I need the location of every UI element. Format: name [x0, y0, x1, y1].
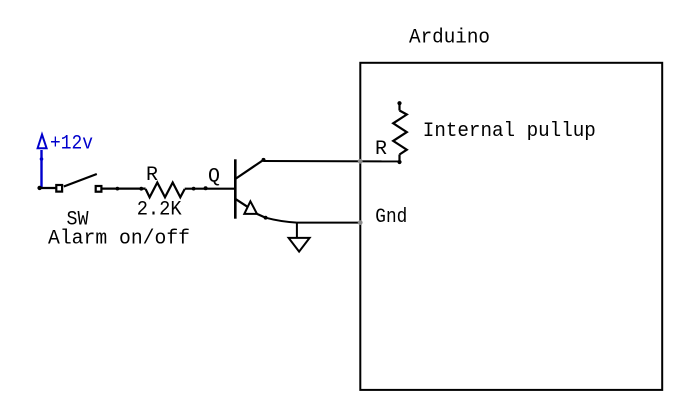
junction dot at collector corner [262, 158, 266, 162]
svg-text:R: R [146, 164, 158, 187]
svg-text:Gnd: Gnd [375, 206, 407, 229]
junction dot (gray) at box edge, pullup net [358, 159, 363, 164]
junction dot emitter [264, 216, 268, 220]
wire emitter to ground node [266, 218, 297, 223]
svg-text:+12v: +12v [50, 133, 93, 156]
pin dot top of pullup [397, 101, 401, 105]
junction dot [139, 187, 143, 191]
wire from switch to resistor R [102, 188, 145, 190]
resistor R (2.2K) [146, 183, 185, 198]
pin dot bottom of pullup [397, 160, 401, 164]
junction dot [204, 186, 208, 190]
svg-text:2.2K: 2.2K [137, 199, 182, 222]
power +12V symbol (blue arrow) [38, 135, 47, 189]
junction dot [192, 187, 196, 191]
block Arduino [360, 63, 662, 390]
wire ground node to Arduino Gnd [297, 222, 360, 224]
resistor R internal pullup [393, 103, 407, 162]
svg-text:Alarm on/off: Alarm on/off [48, 228, 190, 251]
svg-text:R: R [375, 138, 387, 161]
junction dot (gray) at box edge, Gnd net [358, 220, 363, 225]
svg-text:Arduino: Arduino [409, 26, 490, 49]
wire from resistor to transistor base [185, 188, 236, 190]
junction dot [116, 187, 120, 191]
svg-text:Internal pullup: Internal pullup [423, 120, 596, 143]
junction dot at +12V feed [37, 186, 41, 190]
svg-text:Q: Q [208, 166, 220, 189]
wire from +12V to switch [40, 187, 56, 189]
switch SW [56, 174, 101, 192]
transistor Q [235, 159, 265, 218]
wire collector to internal pullup [264, 160, 400, 162]
ground [289, 223, 310, 252]
